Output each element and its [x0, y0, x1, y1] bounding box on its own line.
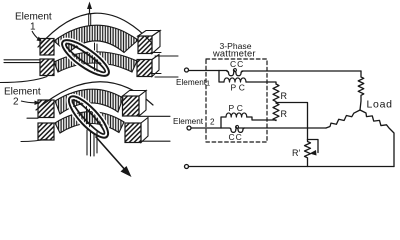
shaft axis arrow pointing down-right [96, 137, 132, 177]
element 2 upper-right pole block [123, 91, 147, 117]
element 1 right wires [151, 53, 178, 57]
leader arrow to element 2 core [21, 101, 40, 106]
svg-text:Load: Load [367, 99, 393, 111]
resistor R1 [273, 84, 279, 102]
leader arrow to element 1 core [32, 31, 42, 42]
label Element 1 (mechanical) [15, 12, 52, 33]
rheostat R' [305, 140, 311, 167]
element 1 lower-left wire [0, 77, 47, 83]
resistor R2 [273, 103, 279, 121]
load wye left leg [326, 110, 360, 128]
moving coil ellipse of element 1 [57, 34, 113, 81]
rheostat wiper arm [308, 140, 319, 153]
svg-text:R: R [281, 91, 288, 101]
svg-text:Element: Element [173, 117, 204, 126]
element 2 left wires [27, 117, 38, 119]
terminal 2 [187, 126, 191, 130]
wire PC1 to R1 [246, 82, 276, 84]
label Element 2 (mechanical) [4, 87, 41, 108]
dashed wattmeter boundary box [206, 59, 267, 142]
load wye right leg [360, 110, 394, 167]
bottom terminal [185, 165, 189, 169]
moving coil ellipse of element 2 [64, 91, 114, 143]
element 1 left wires [4, 60, 40, 63]
element 1 lower-right pole block [137, 55, 159, 77]
svg-text:2: 2 [210, 118, 215, 127]
wire line 2 to load [239, 127, 326, 129]
lower hatched arch band of element 1 [54, 52, 137, 72]
element 2 lower-right pole block [125, 118, 148, 143]
svg-text:R′: R′ [292, 148, 300, 158]
upper hatched arch band of element 1 [54, 25, 138, 53]
svg-text:1: 1 [206, 79, 210, 88]
element 1 lower-left pole block [40, 59, 54, 76]
svg-text:Element: Element [176, 78, 207, 87]
wire PC2 to R2 bottom [247, 117, 276, 120]
element 2 right wires [139, 115, 170, 117]
PC1 branch wire [219, 71, 224, 83]
element 1 upper-left pole block [40, 39, 54, 56]
element 2 upper-left pole block [38, 100, 54, 118]
outer back arc of element 2 core [36, 82, 153, 110]
current coil CC2 [221, 128, 245, 132]
pointer needle of element 1 [87, 2, 92, 14]
shaft of element 1 [89, 14, 91, 26]
potential coil PC2 [226, 113, 247, 117]
bottom wire line 3 [189, 166, 395, 168]
artificial neutral wire from R junction [276, 103, 308, 140]
upper hatched arch band of element 2 [55, 89, 123, 114]
current coil CC1 [227, 71, 243, 75]
svg-text:CC: CC [229, 132, 243, 142]
PC2 branch wire [221, 117, 226, 128]
svg-text:CC: CC [230, 59, 244, 69]
element 1 lower-right wire [151, 74, 178, 78]
shaft of element 2 [87, 104, 90, 131]
svg-text:PC: PC [229, 103, 246, 113]
load wye top leg [358, 71, 364, 110]
element 1 upper-right pole block [138, 31, 160, 54]
lower hatched arch band of element 2 [55, 112, 124, 133]
element 2 lower-left pole block [38, 123, 54, 140]
shaft suspension lines below element 2 [87, 130, 97, 156]
wire line 1 from CC1 to load corner [242, 70, 361, 72]
wire line 1 to CC1 [189, 70, 228, 72]
potential coil PC1 [224, 78, 246, 82]
svg-text:2: 2 [13, 97, 19, 108]
svg-text:Element: Element [4, 87, 41, 98]
outer back arc of element 1 core [38, 13, 151, 47]
svg-text:PC: PC [231, 83, 248, 93]
svg-text:R: R [281, 109, 288, 119]
terminal 1 [185, 68, 189, 72]
wire line 2 [191, 127, 221, 129]
svg-text:wattmeter: wattmeter [212, 48, 256, 58]
svg-text:1: 1 [30, 22, 36, 33]
